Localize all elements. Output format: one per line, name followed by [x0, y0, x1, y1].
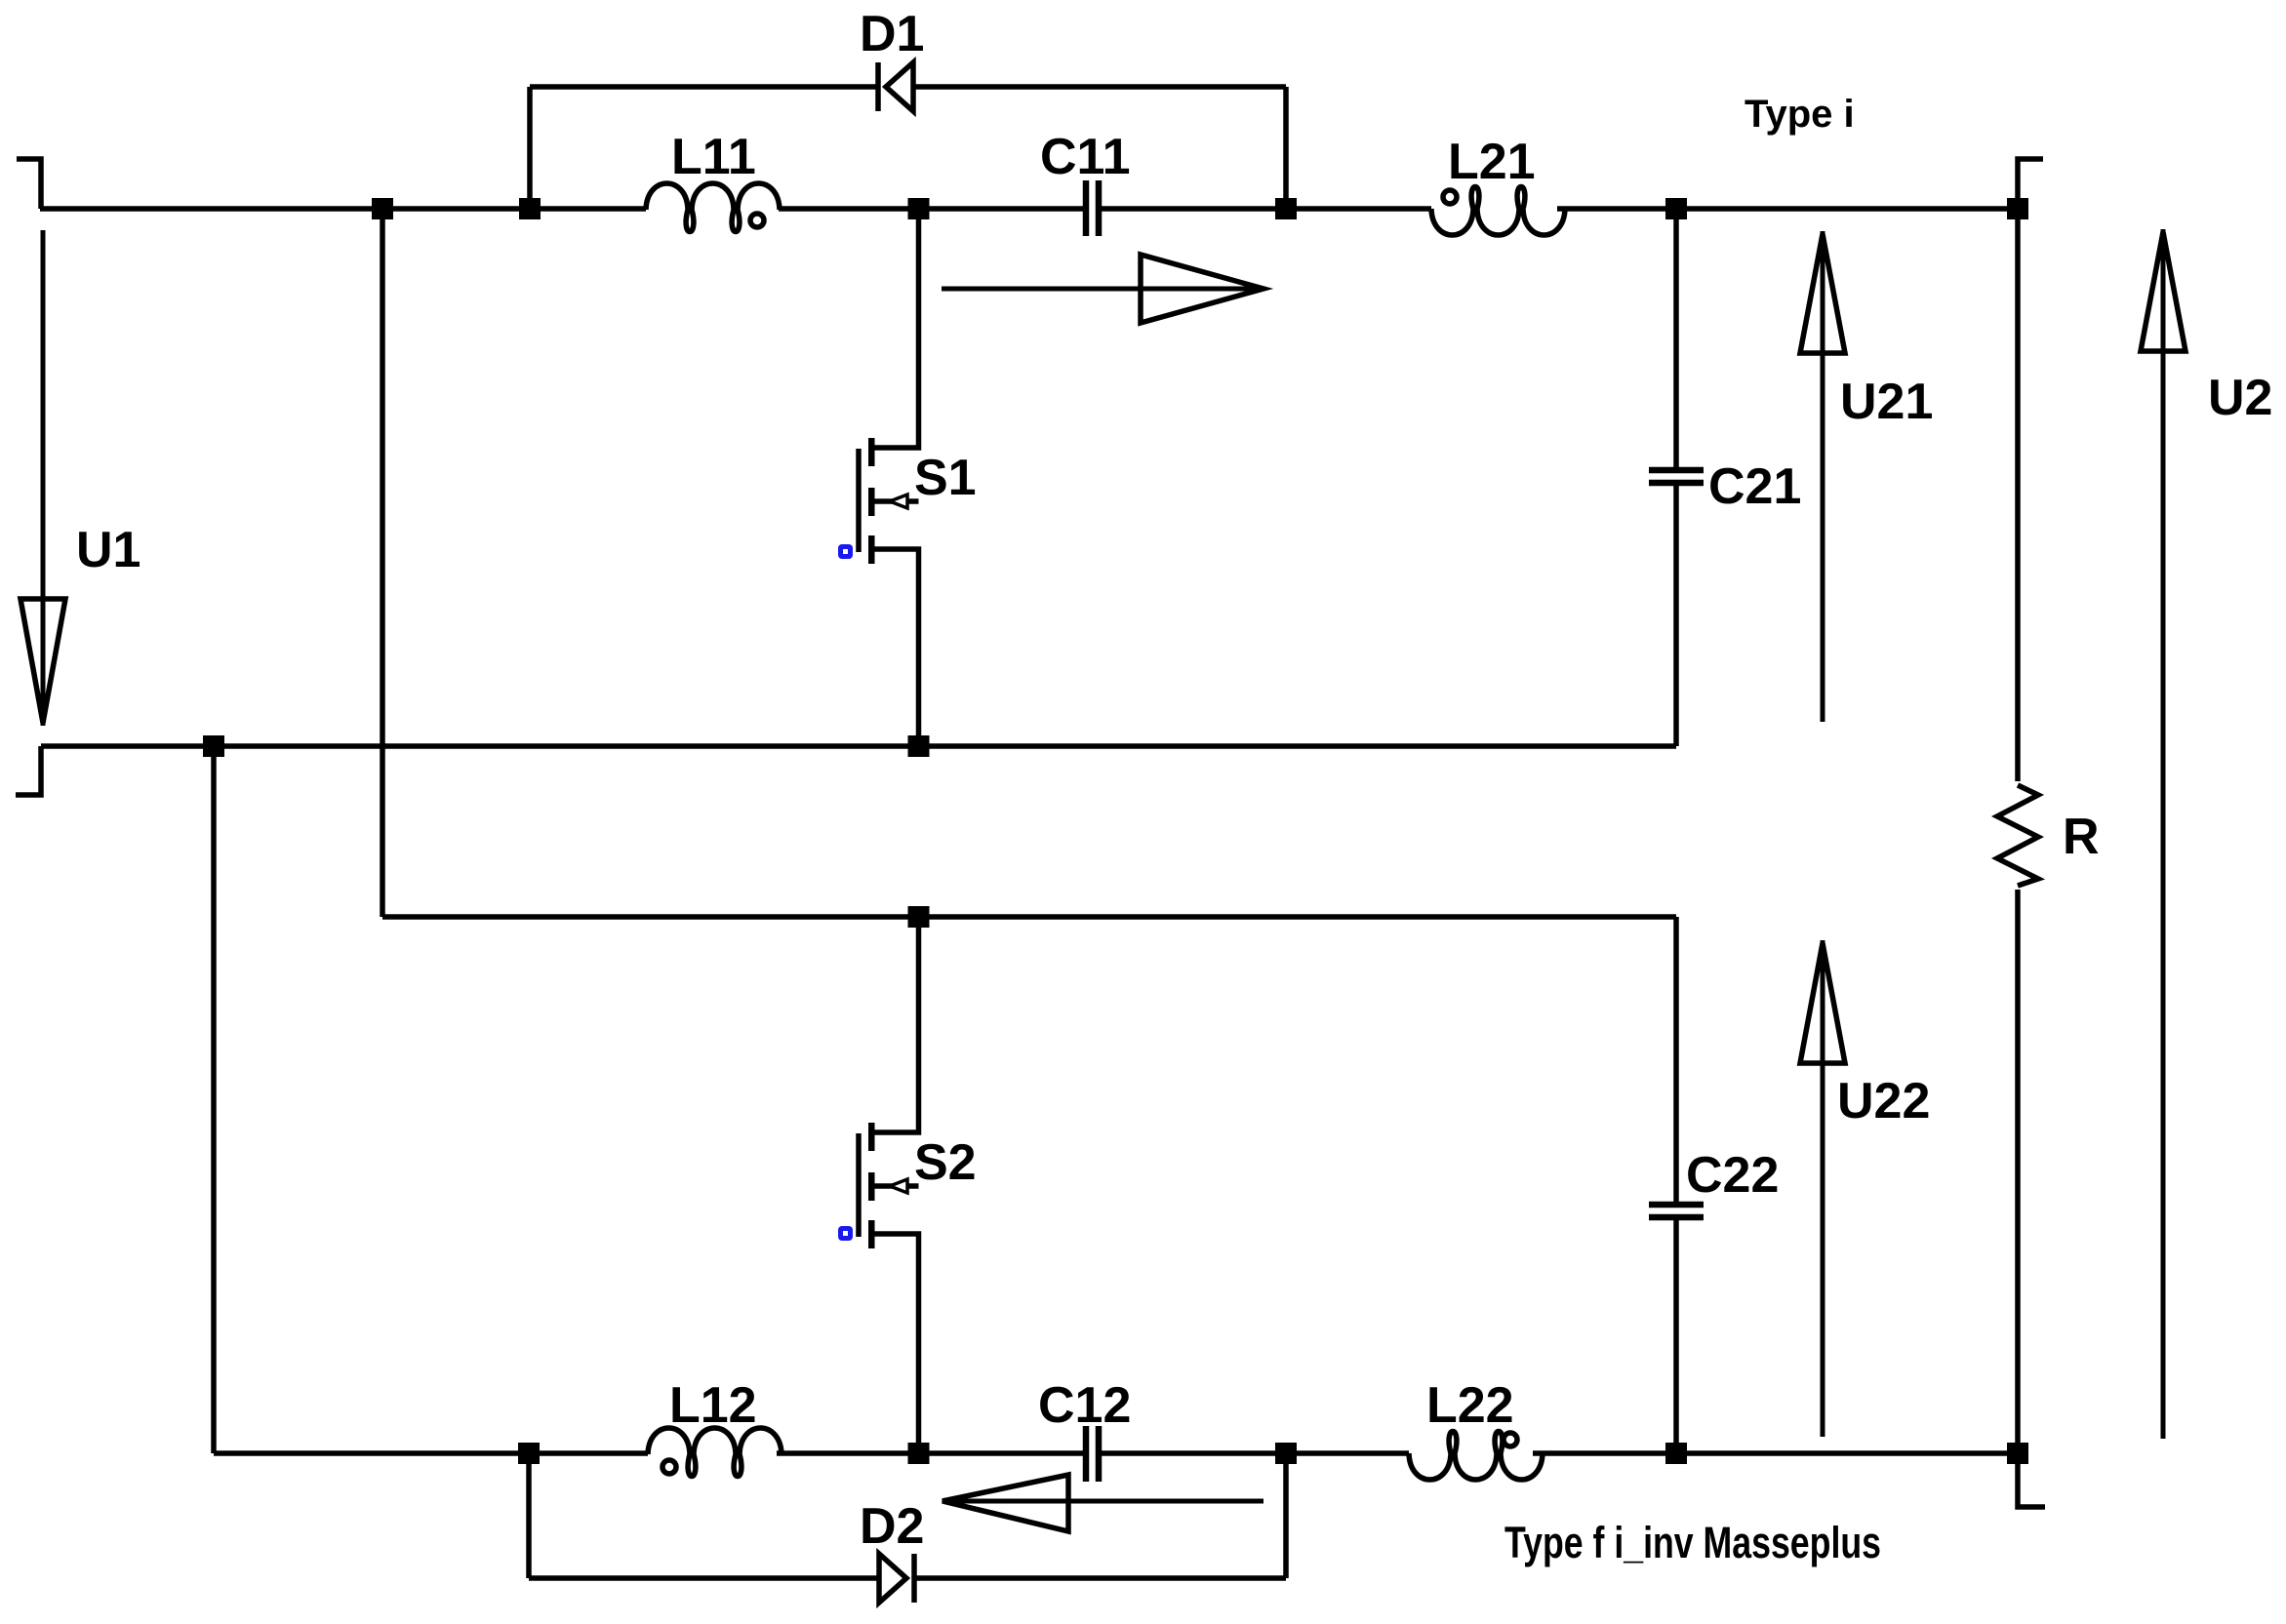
wire D1 loop left vertical [527, 87, 533, 209]
junction bottom rail / S2 source [908, 1443, 930, 1464]
U22 voltage arrow (up) [1800, 940, 1845, 1437]
wire bottom rail segment L12 to C12 [777, 1450, 1083, 1456]
capacitor C22 [1649, 1205, 1704, 1217]
svg-text:L22: L22 [1426, 1377, 1514, 1434]
transistor S2 (NMOS) [859, 917, 919, 1453]
junction bottom rail / output branch [2007, 1443, 2028, 1464]
S1 gate pad [838, 544, 853, 559]
svg-text:C21: C21 [1708, 458, 1801, 515]
svg-text:Type f i_inv Masseplus: Type f i_inv Masseplus [1504, 1518, 1881, 1567]
wire C22 bottom lead to bottom rail [1673, 1220, 1679, 1453]
junction top rail / C21 [1665, 198, 1687, 219]
inductor L22 [1409, 1432, 1543, 1481]
junction rail1 / S1 source [908, 735, 930, 757]
wire top rail segment L21 to right bracket [1557, 206, 2018, 212]
svg-text:D2: D2 [860, 1498, 924, 1555]
wire top rail segment C11 to L21 [1102, 206, 1431, 212]
wire top rail (node N1 top) [40, 206, 646, 212]
svg-text:L12: L12 [669, 1377, 757, 1434]
U1 voltage arrow (down) [20, 230, 65, 726]
wire D1 loop top horizontal right of diode [913, 84, 1286, 90]
wire D1 loop right vertical [1283, 87, 1289, 209]
wire bottom rail segment L22 to right bracket [1533, 1450, 2018, 1456]
junction rail2 / S2 drain [908, 906, 930, 928]
svg-text:U1: U1 [76, 522, 140, 578]
resistor R [1997, 785, 2038, 886]
wire top rail segment L11 to C11 [779, 206, 1083, 212]
junction bottom rail / D2 loop right [1275, 1443, 1297, 1464]
wire vertical from rail 1 down to bottom rail (node A) [211, 746, 217, 1453]
wire D2 loop left vertical [526, 1453, 532, 1578]
wire D2 loop bottom horizontal left of diode [529, 1575, 877, 1581]
inductor L11 [646, 183, 780, 232]
junction bottom rail / C22 [1665, 1443, 1687, 1464]
svg-text:U2: U2 [2208, 370, 2272, 426]
capacitor C11 [1086, 180, 1099, 236]
capacitor C12 [1086, 1426, 1099, 1482]
svg-text:L11: L11 [671, 129, 756, 185]
junction bottom rail / D2 loop left [518, 1443, 540, 1464]
svg-text:D1: D1 [860, 6, 924, 62]
svg-text:R: R [2063, 809, 2100, 865]
S2 gate pad [838, 1226, 853, 1241]
junction top rail / D1 loop right [1275, 198, 1297, 219]
wire C22 top lead from rail 2 [1673, 917, 1679, 1202]
wire bottom rail segment C12 to L22 [1102, 1450, 1409, 1456]
svg-text:S2: S2 [914, 1134, 977, 1191]
wire D1 loop top horizontal left of diode [530, 84, 878, 90]
svg-text:L21: L21 [1448, 134, 1536, 190]
junction rail1 / vertical A [203, 735, 224, 757]
inductor L21 [1431, 187, 1565, 236]
current direction arrow top (right) [942, 255, 1263, 323]
output top terminal bracket [2018, 159, 2043, 209]
diode D1 [878, 62, 913, 111]
wire bottom rail left segment [214, 1450, 648, 1456]
junction top rail / vertical B [372, 198, 393, 219]
wire right vertical rail below resistor [2015, 890, 2021, 1453]
svg-text:U21: U21 [1840, 374, 1933, 430]
current direction arrow bottom (left) [942, 1475, 1263, 1531]
U1 source bottom terminal bracket [16, 746, 41, 795]
svg-text:S1: S1 [914, 450, 977, 506]
wire C21 top lead from top rail [1673, 209, 1679, 467]
junction top rail / D1 loop left [519, 198, 541, 219]
svg-text:C12: C12 [1038, 1377, 1131, 1434]
wire right vertical rail (load branch) top part [2015, 209, 2021, 781]
wire D2 loop right vertical [1283, 1453, 1289, 1578]
wire middle rail 2 (S2 drain rail to C22 top) [382, 914, 1676, 920]
svg-text:U22: U22 [1837, 1073, 1930, 1129]
inductor L12 [648, 1428, 782, 1477]
svg-text:C22: C22 [1686, 1147, 1779, 1204]
wire D2 loop bottom horizontal right of diode [914, 1575, 1286, 1581]
svg-text:C11: C11 [1040, 129, 1131, 185]
transistor S1 (NMOS) [859, 209, 919, 746]
wire C21 bottom lead to rail 1 [1673, 486, 1679, 746]
wire vertical from top rail down to rail 2 (node B) [380, 209, 385, 917]
output bottom terminal bracket [2018, 1453, 2045, 1507]
junction top rail / S1 drain [908, 198, 930, 219]
junction top rail / output branch [2007, 198, 2028, 219]
U1 source top terminal bracket [17, 159, 41, 209]
diode D2 [879, 1554, 914, 1603]
svg-text:Type i: Type i [1745, 93, 1855, 136]
U21 voltage arrow (up) [1800, 231, 1845, 722]
U2 voltage arrow (up) [2141, 229, 2186, 1439]
capacitor C21 [1649, 470, 1704, 483]
wire middle rail 1 (U1 minus to C21 bottom) [41, 743, 1676, 749]
